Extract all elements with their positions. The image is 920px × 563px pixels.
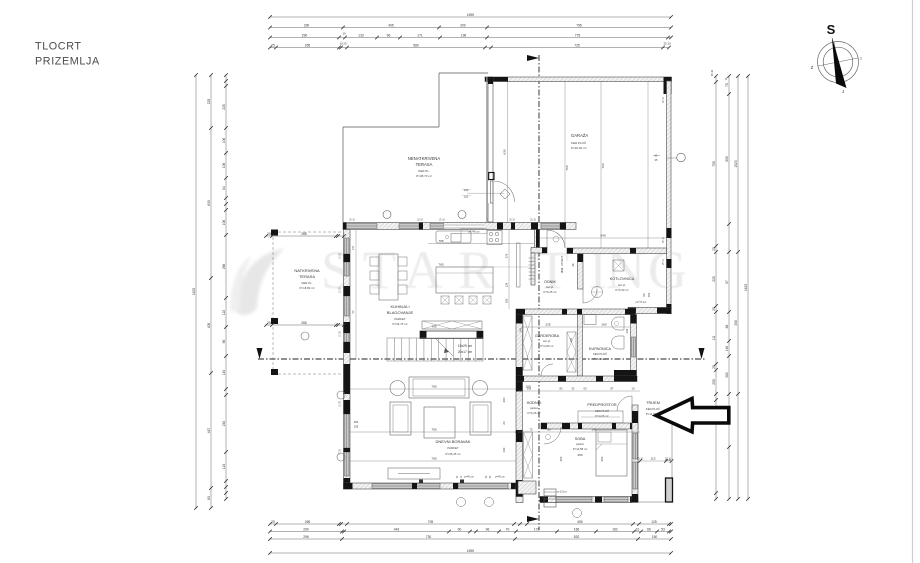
svg-text:171: 171 [417,33,423,37]
svg-text:96: 96 [486,527,490,531]
svg-text:97: 97 [725,280,729,284]
svg-text:443: 443 [394,527,400,531]
west wall piers [344,254,351,262]
covered terrace dashed boundary [273,231,343,233]
svg-text:25 10: 25 10 [349,220,355,222]
svg-text:TERASA: TERASA [416,162,433,167]
svg-text:162: 162 [612,527,618,531]
svg-text:290: 290 [304,23,310,27]
covered terrace inner dims [266,235,344,237]
svg-text:BLAGOVANJE: BLAGOVANJE [387,310,414,315]
svg-text:500: 500 [725,156,729,162]
compass rose [818,42,859,83]
bottom dimension chains [270,523,671,525]
svg-text:25 10: 25 10 [439,220,445,222]
svg-text:PREDPROSTOR: PREDPROSTOR [587,403,617,407]
svg-text:240: 240 [352,245,355,250]
frame line right edge [912,0,914,563]
south wall piers [344,483,353,489]
svg-text:106: 106 [222,220,226,226]
svg-text:10 25: 10 25 [340,252,342,258]
svg-text:KER.PL.: KER.PL. [418,169,430,173]
svg-text:240: 240 [519,327,523,332]
svg-text:520: 520 [574,535,580,539]
garderoba west wall [516,315,523,377]
svg-text:82: 82 [560,387,563,391]
svg-text:ODNIK: ODNIK [544,280,556,284]
svg-text:DNEVNI BORAVAK: DNEVNI BORAVAK [436,439,471,444]
svg-text:765: 765 [438,263,443,267]
svg-text:P=18,82 m²: P=18,82 m² [299,286,314,290]
top dimension chains [270,16,671,18]
middle band wall garderoba top [516,309,635,315]
step circles below wall [457,498,466,507]
staircase [387,338,483,361]
svg-text:795: 795 [576,23,582,27]
svg-text:580: 580 [413,43,419,47]
house west wall [344,230,351,490]
svg-text:P=4,06 m²: P=4,06 m² [596,414,609,418]
svg-text:265: 265 [305,43,311,47]
svg-text:25 10: 25 10 [664,42,671,46]
tv board [388,468,440,479]
svg-text:10 25: 10 25 [340,400,342,406]
svg-text:705: 705 [431,325,436,329]
svg-text:450: 450 [577,453,582,457]
garderoba door arc [541,364,553,376]
svg-text:P=36,45 m²: P=36,45 m² [445,452,460,456]
svg-text:PRIZEMLJA: PRIZEMLJA [35,56,100,68]
closet X band [422,321,482,329]
soba south wall [540,497,638,503]
svg-text:705: 705 [428,520,434,524]
door leader labels 130 225 [467,192,504,194]
plant circle right [473,381,488,396]
svg-text:96: 96 [387,33,391,37]
inner dim row middle [521,326,630,328]
svg-text:130: 130 [464,188,469,192]
west wall windows [345,238,350,254]
svg-text:P=4,50 m²: P=4,50 m² [594,357,607,361]
svg-text:I: I [860,56,861,61]
svg-text:775: 775 [575,33,581,37]
watermark swoosh logo [230,248,285,315]
kitchen island [436,267,493,293]
svg-text:196: 196 [461,33,467,37]
svg-text:25: 25 [712,247,716,251]
svg-text:10: 10 [342,32,346,36]
svg-text:KER.PLOČ: KER.PLOČ [593,351,607,356]
garage wall balloon [677,153,686,162]
svg-text:10: 10 [632,387,635,391]
svg-text:10 25: 10 25 [340,42,347,46]
svg-text:25: 25 [712,365,716,369]
svg-text:229: 229 [712,276,716,282]
svg-text:A: A [404,240,443,300]
svg-text:ker.pl.: ker.pl. [546,285,554,289]
svg-text:PARKET: PARKET [447,446,459,450]
watermark text [321,240,687,300]
svg-text:32: 32 [572,387,575,391]
svg-text:290: 290 [302,33,308,37]
covered terrace posts [271,230,278,236]
kitchen boxed label [461,229,487,234]
garage top wall piers [485,77,508,82]
svg-text:P=6,26 m²: P=6,26 m² [528,411,541,415]
trijem column [666,478,673,502]
svg-text:53: 53 [661,527,665,531]
odnik west wall upper [535,230,540,249]
svg-text:400: 400 [207,323,211,329]
svg-text:ker.pl.: ker.pl. [618,283,626,287]
north wall windows [346,224,377,229]
svg-text:730: 730 [426,535,432,539]
svg-text:66: 66 [725,325,729,329]
svg-text:Z: Z [811,65,814,70]
svg-text:80: 80 [547,428,551,432]
svg-text:20x17 cm: 20x17 cm [458,350,473,354]
garage left wall door opening + leaf + arc [488,181,493,203]
svg-text:23: 23 [502,421,506,425]
svg-text:100: 100 [505,298,509,303]
svg-text:KER.PLOČ: KER.PLOČ [646,406,660,411]
garage top wall [485,77,672,82]
soba north wall [541,423,638,429]
svg-text:225: 225 [222,104,226,110]
svg-text:66: 66 [647,527,651,531]
svg-text:705: 705 [431,428,436,432]
svg-text:T: T [363,240,396,300]
svg-text:72: 72 [529,428,533,432]
svg-text:25 10: 25 10 [509,220,515,222]
svg-text:P=3,83 m²: P=3,83 m² [541,344,554,348]
svg-text:265: 265 [305,520,311,524]
svg-text:265: 265 [301,321,307,325]
hall top wall (bath bottom) [516,376,637,382]
svg-text:290: 290 [303,527,309,531]
uncovered terrace outline [439,72,488,74]
svg-text:70: 70 [506,527,510,531]
svg-text:P=28,73 m²: P=28,73 m² [416,174,432,178]
svg-text:19x29 cm: 19x29 cm [458,344,473,348]
kupaonica fixtures [584,315,596,325]
kitchen tall cabinet edge [517,243,521,287]
svg-text:705: 705 [431,385,436,389]
garage inner dim 630 [507,81,509,222]
living room inner dims [350,388,520,390]
armchair left [390,402,411,435]
svg-text:200: 200 [502,397,506,402]
living room south wall [344,483,522,489]
north wall piers [343,223,347,230]
soba dim line 115 [638,460,672,462]
svg-text:1690: 1690 [467,549,475,553]
svg-text:PARKET: PARKET [394,317,406,321]
hodnik wardrobe [524,432,533,478]
svg-text:KUPAONICA: KUPAONICA [589,347,612,351]
svg-text:25: 25 [267,232,271,236]
svg-text:P=13,58 m²: P=13,58 m² [573,447,588,451]
svg-text:KER.PLOČ: KER.PLOČ [571,140,587,145]
garderoba wardrobes right [567,332,576,372]
svg-text:25 10: 25 10 [665,459,672,462]
svg-text:300: 300 [559,456,563,461]
svg-text:p=46 cm: p=46 cm [464,476,474,479]
svg-text:44: 44 [571,263,575,266]
svg-text:GARDEROBA: GARDEROBA [535,334,560,338]
svg-text:25: 25 [712,307,716,311]
south wall windows [372,484,440,489]
svg-text:TERASA: TERASA [299,274,315,279]
bed [596,430,627,476]
svg-text:630: 630 [207,200,211,206]
svg-text:p=46 cm: p=46 cm [495,476,505,479]
svg-text:25: 25 [271,520,275,524]
svg-text:P=40,90 m²: P=40,90 m² [571,146,587,150]
svg-text:150: 150 [652,535,658,539]
svg-text:106: 106 [222,138,226,144]
coffee table [424,407,455,438]
kotlovnica boiler [613,260,624,271]
left dimension chains [195,75,197,508]
svg-text:133: 133 [358,33,364,37]
svg-text:P=34,75 m²: P=34,75 m² [392,322,407,326]
svg-text:705: 705 [431,457,436,461]
south wall sill marks and labels [419,480,423,484]
door diamond symbol [500,189,510,199]
svg-text:KER.PLOČ: KER.PLOČ [595,408,609,413]
svg-text:KER.PL.: KER.PL. [301,281,312,285]
svg-text:10 25: 10 25 [340,330,342,336]
svg-text:1023: 1023 [734,160,738,168]
svg-text:700: 700 [565,165,569,170]
svg-text:700: 700 [712,161,716,167]
kotlovnica south wall [628,308,672,314]
hodnik south wall piece [516,481,523,503]
garage left wall (terrace side) [488,77,493,222]
svg-text:200: 200 [460,23,466,27]
svg-text:240: 240 [222,421,226,427]
svg-text:111: 111 [712,335,716,340]
section line horizontal with arrows [258,358,706,360]
svg-text:63: 63 [584,387,587,391]
plant circle left [390,381,405,396]
stove [487,231,502,245]
balloon window sill 2 [337,453,345,461]
svg-text:25 10: 25 10 [637,458,644,461]
svg-text:P=5,30 m²: P=5,30 m² [616,288,629,292]
svg-text:405: 405 [388,23,394,27]
stair beam with end blocks [420,331,483,339]
compass needle [832,37,847,89]
big entrance arrow [656,399,729,432]
svg-text:382: 382 [725,372,729,378]
svg-text:pr.101 pr: pr.101 pr [557,491,567,494]
svg-text:105: 105 [527,387,532,391]
svg-text:84: 84 [222,186,226,190]
svg-text:124: 124 [505,282,509,287]
svg-text:10 25: 10 25 [340,448,342,454]
terrace column circle 1 [383,211,391,219]
right dimension chains [715,76,717,499]
terrace column circle 2 [458,211,466,219]
svg-text:NATKRIVENA: NATKRIVENA [294,268,320,273]
svg-text:150: 150 [647,292,651,297]
svg-text:p4778 ant: p4778 ant [636,301,647,304]
svg-text:249: 249 [625,328,629,333]
svg-text:1625: 1625 [192,288,196,296]
garage south wall [567,248,667,254]
wall garderoba/kupaonica [578,315,583,377]
svg-text:124: 124 [222,464,226,470]
trijem edge lines [638,501,672,503]
svg-text:25 10: 25 10 [663,96,665,102]
svg-text:HODNIK: HODNIK [527,401,542,405]
garderoba wardrobes left [523,316,532,370]
svg-text:340: 340 [502,447,506,452]
north wall opening (sliding door) [444,224,484,229]
svg-text:300: 300 [600,456,604,461]
garage right wall [667,81,672,313]
svg-text:265: 265 [301,232,307,236]
svg-text:140: 140 [222,370,226,376]
svg-text:KUHINJA I: KUHINJA I [390,304,409,309]
svg-text:275: 275 [505,253,509,258]
svg-text:90: 90 [458,527,462,531]
svg-text:S: S [827,22,836,37]
odnik-garage door arc [546,230,548,248]
svg-text:700: 700 [601,163,605,168]
svg-text:300: 300 [734,320,738,326]
svg-text:200: 200 [712,379,716,385]
svg-text:269: 269 [601,323,606,327]
svg-text:ker.pl.: ker.pl. [543,339,551,343]
svg-text:765: 765 [438,239,443,243]
odnik west wall lower [531,253,535,285]
svg-text:540: 540 [600,234,605,238]
soba east wall [632,405,638,503]
svg-text:25: 25 [267,321,271,325]
kitchen inner dim 765 [428,243,537,245]
section line vertical with arrows [538,55,540,530]
svg-text:parket: parket [576,442,584,446]
svg-text:106: 106 [222,163,226,169]
svg-text:KOTLOVNICA: KOTLOVNICA [610,277,635,281]
svg-text:450: 450 [577,520,583,524]
soba door arc [544,427,561,444]
svg-text:1625: 1625 [744,284,748,292]
garage-odnik door arc [546,230,548,248]
svg-text:296: 296 [303,535,309,539]
garage inner dims 730 [564,81,566,248]
svg-text:p4748 cm: p4748 cm [469,230,480,233]
entry step wall chunk [518,481,536,494]
svg-text:225: 225 [207,99,211,105]
svg-text:25: 25 [271,43,275,47]
svg-text:235: 235 [545,323,550,327]
svg-text:87: 87 [611,387,614,391]
svg-text:25 10: 25 10 [417,220,423,222]
svg-text:25 10: 25 10 [530,220,536,222]
svg-text:J: J [842,89,844,94]
dining table [379,254,398,300]
kotlovnica door arc [583,302,597,304]
svg-text:240: 240 [569,337,573,342]
svg-text:R: R [458,240,494,300]
svg-text:NENATKRIVENA: NENATKRIVENA [408,156,440,161]
armchair right [470,402,491,435]
kitchen counter with sink [436,231,471,243]
svg-text:10 25: 10 25 [340,286,342,292]
svg-text:296: 296 [592,428,597,432]
entry steps [544,489,556,507]
hodnik west wall [516,382,523,497]
garage dim 540 [539,237,666,239]
odnik horizontal wall piece [531,248,547,254]
svg-text:GARAŽA: GARAŽA [571,133,588,138]
svg-text:266: 266 [222,264,226,270]
svg-text:125: 125 [651,520,657,524]
svg-text:96: 96 [222,340,226,344]
svg-text:115: 115 [651,457,656,461]
garage left wall window frame square [489,173,494,180]
svg-text:25 10: 25 10 [663,258,665,264]
predprostor niche [578,411,623,423]
island stools [441,296,449,304]
svg-text:235: 235 [354,425,359,429]
house north wall [343,223,576,230]
svg-text:122: 122 [222,310,226,316]
dining chairs [370,257,379,266]
svg-text:146: 146 [725,346,729,352]
kitchen inner vertical dim [508,229,510,309]
svg-text:31: 31 [636,527,640,531]
svg-text:487: 487 [207,428,211,434]
sofa [409,377,469,398]
svg-text:75: 75 [725,83,729,87]
svg-text:TLOCRT: TLOCRT [35,41,82,53]
svg-text:260: 260 [354,420,359,424]
svg-text:225: 225 [464,195,469,199]
svg-text:60: 60 [207,496,211,500]
soba dim row [518,431,640,433]
svg-text:TRIJEM: TRIJEM [646,401,660,405]
svg-text:630: 630 [503,149,507,154]
kupaonica east wall [631,315,637,377]
inner dim row predprostor [518,390,640,392]
svg-text:725: 725 [574,43,580,47]
svg-text:SOBA: SOBA [575,437,586,441]
svg-text:166: 166 [574,527,580,531]
svg-text:25 10: 25 10 [663,236,665,242]
front door arc [617,396,632,411]
odnik east wall (kotlovnica) [578,254,584,289]
balloon window sill 1 [337,391,345,399]
svg-text:P=5,25 m²: P=5,25 m² [544,290,557,294]
svg-text:parket: parket [530,406,538,410]
svg-text:1690: 1690 [467,13,475,17]
svg-text:25 10: 25 10 [711,69,714,76]
